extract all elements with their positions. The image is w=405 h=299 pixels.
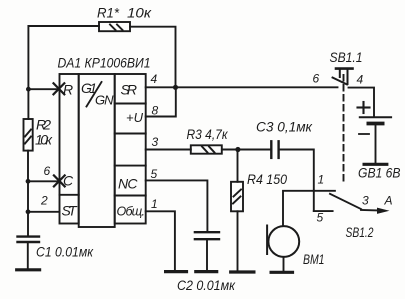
node C input X mark xyxy=(54,175,65,186)
microphone BM1 xyxy=(268,226,299,257)
svg-text:GN: GN xyxy=(95,93,114,108)
node junction dot pin4/R1 xyxy=(173,85,178,90)
svg-text:NC: NC xyxy=(118,176,138,192)
wire top feedback loop left segment xyxy=(28,26,99,119)
svg-text:A: A xyxy=(384,194,393,208)
wire BM1 to SB1.2 node xyxy=(283,191,314,226)
IC DA1 KR1006VI1 timer main body xyxy=(79,74,115,227)
svg-text:4: 4 xyxy=(151,72,158,86)
wire C3 to SB1.2 pin 1 xyxy=(279,150,314,212)
IC DA1 left input column xyxy=(60,74,79,224)
svg-text:5: 5 xyxy=(151,167,158,181)
svg-text:R2: R2 xyxy=(36,117,51,133)
svg-text:SB1.2: SB1.2 xyxy=(346,225,374,240)
node junction dot left rail C xyxy=(26,179,31,184)
svg-text:ВМ1: ВМ1 xyxy=(303,252,325,267)
svg-text:C3 0,1мк: C3 0,1мк xyxy=(256,120,313,135)
wire pin 4 output SR to SB1.1 xyxy=(146,86,338,88)
svg-text:6: 6 xyxy=(313,72,320,86)
ground C2 terminal bar xyxy=(196,270,217,273)
svg-text:SR: SR xyxy=(121,82,138,98)
IC right column divider SR/+U xyxy=(115,103,146,105)
svg-text:8: 8 xyxy=(152,104,159,118)
pin number labels xyxy=(151,72,159,211)
wire C1 bottom lead xyxy=(27,242,29,269)
node junction dot left rail ST xyxy=(26,209,31,214)
svg-text:DA1 КР1006ВИ1: DA1 КР1006ВИ1 xyxy=(58,56,151,71)
switch SB1.2 contact 5 stub xyxy=(314,210,333,212)
svg-text:GB1 6В: GB1 6В xyxy=(358,166,401,181)
capacitor C1 xyxy=(18,237,40,242)
wire SB1.1 to battery xyxy=(349,88,375,117)
wire BM1 bottom lead xyxy=(283,257,285,271)
svg-text:ST: ST xyxy=(62,203,78,219)
microphone BM1 bracket xyxy=(266,226,268,255)
svg-text:R3 4,7к: R3 4,7к xyxy=(187,127,229,142)
ground pin1 terminal bar xyxy=(166,270,187,273)
switch SB1.2 contact 1 stub xyxy=(314,190,335,192)
svg-text:C2 0.01мк: C2 0.01мк xyxy=(177,278,236,293)
node R input X mark xyxy=(54,83,65,94)
node junction dot R3/R4/C3 xyxy=(235,147,240,152)
svg-text:1: 1 xyxy=(318,173,325,187)
svg-text:R4 150: R4 150 xyxy=(247,172,287,187)
IC cell labels xyxy=(62,80,146,219)
ground C1 terminal bar xyxy=(17,268,40,271)
ground BM1 terminal bar xyxy=(271,271,292,274)
svg-text:5: 5 xyxy=(317,211,324,225)
ground R4 terminal bar xyxy=(231,270,254,273)
label R2 10k xyxy=(35,117,53,148)
wire SB1.2 pole arrow to A xyxy=(361,208,390,214)
wire pin 1 Obsh to ground xyxy=(146,211,175,270)
wire pin 3 to R3 xyxy=(146,149,191,151)
wire R1 right lead down to pin4 node xyxy=(130,27,176,88)
wire R4 bottom lead xyxy=(237,211,239,271)
wire R input xyxy=(28,88,59,90)
resistor R1 xyxy=(99,22,130,31)
wire left rail R2 down to C1 xyxy=(27,151,29,237)
svg-text:3: 3 xyxy=(362,194,369,208)
resistor R3 xyxy=(191,145,222,153)
wire C2 bottom lead xyxy=(206,239,208,271)
svg-text:Общ.: Общ. xyxy=(117,205,146,219)
ground battery terminal bar xyxy=(364,163,387,166)
wire ST input pin 2 xyxy=(28,211,60,213)
switch SB1.2 lever xyxy=(330,194,361,209)
resistor R4 xyxy=(231,182,243,212)
wire R3 to C3 xyxy=(222,149,271,151)
IC DA1 left column divider xyxy=(60,194,79,196)
IC G1/GN fraction slash xyxy=(87,82,102,107)
IC right column divider +U/empty xyxy=(115,133,146,135)
IC right column divider empty/NC xyxy=(115,165,146,167)
svg-text:10к: 10к xyxy=(35,132,53,148)
wire pin 5 NC to C2 xyxy=(146,180,208,232)
switch SB1.1 push button xyxy=(333,69,353,85)
battery minus sign xyxy=(359,133,369,135)
capacitor C3 xyxy=(271,141,278,158)
svg-text:R1*: R1* xyxy=(97,5,120,21)
resistor R2 xyxy=(24,119,33,151)
svg-text:4: 4 xyxy=(357,73,364,87)
svg-text:3: 3 xyxy=(152,135,159,149)
battery plus sign xyxy=(358,102,370,113)
IC right column divider NC/Obsh xyxy=(115,195,146,197)
svg-text:SB1.1: SB1.1 xyxy=(330,50,363,65)
battery GB1 xyxy=(360,117,391,163)
svg-text:1: 1 xyxy=(151,197,158,211)
IC DA1 right output column xyxy=(115,74,146,224)
svg-text:10к: 10к xyxy=(127,5,152,21)
wire pin 8 +U up to pin4 node xyxy=(146,87,176,116)
dashed mechanical link SB1.1-SB1.2 xyxy=(343,75,345,183)
svg-text:2: 2 xyxy=(40,194,48,208)
svg-text:C1 0.01мк: C1 0.01мк xyxy=(36,245,94,260)
capacitor C2 xyxy=(195,232,219,239)
svg-text:6: 6 xyxy=(44,164,51,178)
svg-text:+U: +U xyxy=(126,110,144,125)
wire R4 top lead xyxy=(237,150,239,182)
node junction dot left rail R xyxy=(26,87,31,92)
wire C input pin 6 xyxy=(28,180,59,182)
